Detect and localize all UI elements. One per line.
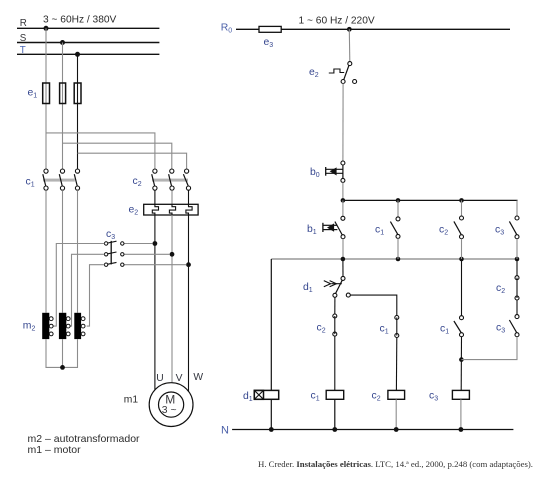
wire control feeder	[236, 28, 510, 30]
node junction on S	[60, 40, 65, 45]
wire c3 pole1 to tap of winding 1	[53, 244, 104, 327]
wire branch phase2 to c2	[63, 143, 172, 169]
wire c2 NC to coil c1	[334, 336, 336, 390]
timed contact d1	[324, 276, 351, 297]
wire b1 to bus2	[342, 239, 344, 259]
autotransformer m2 winding 2	[59, 313, 70, 339]
overload relay e2 heater 3	[186, 204, 192, 215]
coil c2	[388, 390, 405, 399]
svg-text:c2: c2	[496, 283, 505, 295]
svg-text:b0: b0	[310, 167, 320, 179]
contact c1 NO lower	[454, 316, 464, 337]
wire m2 winding2 bottom	[62, 339, 64, 367]
svg-text:c3: c3	[495, 225, 504, 237]
label N	[221, 425, 229, 437]
label d1 coil	[243, 391, 253, 403]
svg-text:c1: c1	[380, 324, 389, 336]
label c3 NO lower	[496, 323, 505, 335]
label 1 ~ 60 Hz / 220V	[299, 15, 375, 26]
label d1	[303, 282, 313, 294]
svg-text:m2: m2	[23, 321, 36, 333]
label c2 coil	[372, 391, 381, 403]
fuse e1 pole 2	[60, 83, 66, 104]
legend line 2	[28, 444, 82, 456]
svg-text:c1: c1	[311, 391, 320, 403]
svg-text:d1: d1	[243, 391, 253, 403]
node tap U	[153, 241, 158, 246]
contactor c2 pole 1	[152, 169, 157, 190]
wire c2 NO to bus2	[461, 239, 463, 259]
wire bus2 to c2 NC right	[516, 259, 518, 276]
svg-text:e2: e2	[309, 67, 319, 79]
coil c1	[326, 390, 344, 399]
phase label R	[20, 18, 27, 29]
wire d1 NO to c1 NC contact	[350, 295, 397, 315]
wire c1 seal to bus2	[397, 238, 399, 259]
wire c1 output 2 to m2	[62, 190, 64, 313]
contactor c1 pole 2	[59, 169, 64, 190]
svg-text:3 ~: 3 ~	[162, 405, 177, 416]
label c1 seal	[375, 225, 384, 237]
wire drop phase 1 to contactor c1	[45, 28, 47, 169]
terminal label V	[176, 373, 183, 384]
label c1 lower	[440, 324, 449, 336]
wire drop phase 3 to contactor c1	[77, 54, 79, 169]
wire c3 top to bus2	[516, 239, 518, 259]
wire c2 output 3 to e2	[188, 190, 190, 204]
svg-text:R0: R0	[221, 23, 233, 35]
contact c2 NC right	[515, 276, 519, 300]
label R0	[221, 23, 233, 35]
wire phase line S	[17, 42, 159, 44]
node junction on T	[75, 52, 80, 57]
label c3 coil	[429, 391, 438, 403]
node N at c2	[394, 427, 399, 432]
contactor c2 pole 3	[183, 169, 190, 190]
contact c3 NO lower	[509, 315, 519, 337]
wire phase line T	[17, 53, 159, 55]
fuse e3	[259, 26, 281, 32]
label e2 control	[309, 67, 319, 79]
wire m2 star point	[46, 339, 78, 367]
motor m1	[149, 383, 193, 427]
svg-text:c1: c1	[26, 177, 35, 189]
wire bus1	[343, 199, 518, 201]
node feeder junction	[347, 27, 352, 32]
wire bus2 to c1 NO lower	[461, 259, 463, 316]
node N at c3	[459, 427, 464, 432]
wire phase line R	[17, 27, 159, 29]
wire e2 to b0	[342, 84, 344, 162]
svg-text:W: W	[193, 372, 203, 383]
label b0	[310, 167, 320, 179]
contact c2 NO	[454, 216, 464, 239]
svg-text:m1: m1	[124, 395, 139, 406]
wire branch phase3 to c2	[78, 153, 187, 169]
wire c1 output 3 to m2	[77, 190, 79, 313]
wire c1 lower to coil c3	[460, 337, 462, 391]
wire bus1 to c2 NO contact	[461, 200, 463, 216]
wire b0 to bus1	[342, 182, 344, 200]
svg-text:c3: c3	[496, 323, 505, 335]
switch c3 pole 1	[104, 241, 152, 245]
node bus1 at c2	[459, 198, 464, 203]
wire branch phase1 to c2	[46, 133, 155, 169]
label c1	[26, 177, 35, 189]
wire c2 output 1 to e2	[154, 190, 156, 204]
wire bus2 to d1 contact	[342, 259, 344, 276]
wire drop phase 2 to contactor c1	[62, 43, 64, 169]
svg-text:N: N	[221, 425, 229, 437]
svg-text:1 ~ 60 Hz / 220V: 1 ~ 60 Hz / 220V	[299, 15, 375, 26]
contactor c1 pole 3	[74, 169, 79, 190]
label c2 NO	[439, 225, 448, 237]
svg-text:H. Creder. Instalações elétric: H. Creder. Instalações elétricas. LTC, 1…	[258, 460, 533, 469]
svg-text:e3: e3	[264, 37, 274, 49]
contact c1 NC (branch c2 coil)	[395, 316, 399, 338]
switch c3 pole 3	[104, 262, 186, 266]
svg-text:c3: c3	[106, 229, 115, 241]
label c1 coil	[311, 391, 320, 403]
wire bus2 left drop to coil d1	[270, 259, 272, 390]
contactor c2 coupling bar	[152, 179, 188, 182]
label c1 NC branch	[380, 324, 389, 336]
svg-text:e2: e2	[129, 205, 139, 217]
autotransformer m2 winding 3	[74, 313, 85, 339]
node bus1 at c1	[396, 198, 401, 203]
wire bus1 to b1	[342, 200, 344, 216]
overload relay e2 heater 2	[169, 204, 175, 215]
wire c2 NC right to c3 NO lower	[516, 300, 518, 315]
label c3	[106, 229, 115, 241]
label 3 ~ 60Hz / 380V	[43, 14, 117, 25]
contact c1 NO seal-in	[390, 217, 400, 239]
node m2 star junction	[60, 365, 65, 370]
wire c1 NC to coil c2	[395, 338, 397, 391]
switch c3 pole 2	[104, 252, 169, 256]
node bus2 at b1	[341, 257, 346, 262]
node bus2 at c2	[459, 257, 464, 262]
overload relay e2 box	[144, 204, 198, 215]
label m1	[124, 395, 139, 406]
contactor c1 pole 1	[43, 169, 48, 190]
contact c2 NC (branch c1 coil)	[333, 314, 337, 336]
svg-text:c3: c3	[429, 391, 438, 403]
svg-text:c2: c2	[133, 176, 142, 188]
wire c1 output 1 to m2	[45, 190, 47, 313]
wire motor rail W	[188, 215, 190, 391]
wire c3 pole3 to tap of winding 3	[87, 265, 105, 326]
label c3 NO top	[495, 225, 504, 237]
svg-text:V: V	[176, 373, 183, 384]
wire c3 pole2 to tap of winding 2	[70, 254, 104, 326]
node N at c1	[332, 427, 337, 432]
label c2 NC right	[496, 283, 505, 295]
legend line 1	[28, 433, 141, 445]
wire d1 NC to c2 contact	[334, 297, 336, 314]
svg-text:3 ~ 60Hz / 380V: 3 ~ 60Hz / 380V	[43, 14, 117, 25]
wire feeder to e2 contact	[348, 29, 351, 61]
wire coil c2 to N	[395, 399, 397, 429]
node tap W	[186, 262, 191, 267]
relay coil d1	[254, 390, 278, 399]
svg-text:c2: c2	[317, 323, 326, 335]
node N at d1	[269, 427, 274, 432]
contactor c1 coupling bar	[43, 179, 75, 182]
label b1	[307, 224, 317, 236]
contactor c2 pole 2	[169, 169, 174, 190]
node bus2 at c1	[396, 257, 401, 262]
label m2	[23, 321, 36, 333]
coil c3	[452, 390, 469, 399]
wire neutral line N	[232, 429, 513, 431]
svg-text:d1: d1	[303, 282, 313, 294]
wire coil c1 to N	[334, 399, 336, 429]
terminal label U	[156, 373, 163, 384]
wire c3 lower jog to joint	[461, 337, 517, 360]
label c2 NC branch	[317, 323, 326, 335]
fuse e1 pole 1	[43, 83, 50, 104]
svg-text:R: R	[20, 18, 27, 29]
label e2	[129, 205, 139, 217]
svg-text:U: U	[156, 373, 163, 384]
svg-text:c2: c2	[372, 391, 381, 403]
wire coil d1 to N	[270, 399, 272, 429]
switch c3 mechanical link	[110, 241, 112, 265]
phase label T	[20, 45, 26, 56]
autotransformer m2 winding 1	[42, 313, 53, 339]
wire coil c3 to N	[460, 399, 462, 429]
pushbutton b0	[326, 161, 345, 182]
node tap V	[170, 252, 175, 257]
pushbutton b1	[323, 216, 345, 238]
wire bus1 to c1 seal contact	[397, 200, 399, 217]
wire bus2	[271, 258, 517, 260]
svg-text:c1: c1	[440, 324, 449, 336]
node junction on R	[44, 26, 49, 31]
terminal label W	[193, 372, 203, 383]
svg-text:e1: e1	[28, 88, 38, 100]
wire c2 output 2 to e2	[171, 190, 173, 204]
wire motor rail V	[171, 215, 173, 383]
label c2	[133, 176, 142, 188]
node bus2 at c3	[515, 257, 520, 262]
phase label S	[20, 33, 27, 44]
thermal contact e2	[329, 62, 357, 84]
svg-text:c2: c2	[439, 225, 448, 237]
overload relay e2 heater 1	[152, 204, 158, 215]
label e1	[28, 88, 38, 100]
node joint before coil c3	[459, 357, 464, 362]
citation	[258, 460, 533, 469]
fuse e1 pole 3	[74, 83, 81, 104]
wire motor rail U	[154, 215, 156, 390]
label e3	[264, 37, 274, 49]
node bus1 at b1	[341, 198, 346, 203]
contact c3 NO top	[509, 216, 519, 239]
svg-text:m1 – motor: m1 – motor	[28, 444, 82, 456]
svg-text:c1: c1	[375, 225, 384, 237]
svg-text:b1: b1	[307, 224, 317, 236]
